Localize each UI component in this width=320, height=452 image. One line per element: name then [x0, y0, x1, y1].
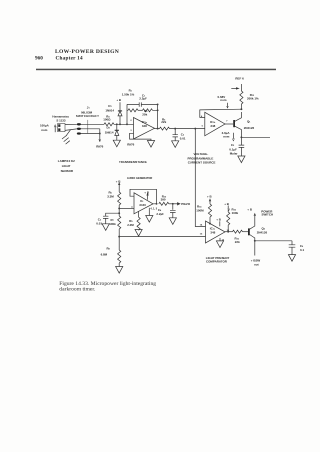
svg-text:390: 390 — [161, 198, 166, 202]
svg-text:PIEZO: PIEZO — [181, 202, 191, 206]
svg-text:3440: 3440 — [139, 203, 146, 207]
svg-text:100M: 100M — [196, 209, 204, 213]
svg-text:0.01: 0.01 — [96, 222, 102, 226]
svg-text:1.50k 1%: 1.50k 1% — [122, 93, 135, 97]
svg-text:348: 348 — [210, 230, 215, 234]
svg-text:2.2M: 2.2M — [127, 223, 134, 227]
svg-text:darkroom timer.: darkroom timer. — [59, 287, 96, 293]
svg-text:+ B: + B — [224, 202, 229, 206]
svg-text:R8: R8 — [107, 247, 111, 251]
svg-text:REF 6: REF 6 — [235, 77, 244, 81]
svg-text:2.2µF: 2.2µF — [156, 212, 164, 216]
svg-text:22k: 22k — [235, 240, 240, 244]
svg-text:Chapter 14: Chapter 14 — [56, 56, 83, 62]
svg-text:7: 7 — [226, 120, 228, 122]
svg-text:100µA: 100µA — [40, 123, 50, 127]
svg-text:R976: R976 — [96, 145, 103, 149]
svg-text:2N4126: 2N4126 — [244, 126, 255, 130]
svg-text:AUDIO GENERATOR: AUDIO GENERATOR — [127, 176, 153, 180]
svg-text:LOW-POWER DESIGN: LOW-POWER DESIGN — [55, 49, 119, 55]
svg-text:4, 1, 5: 4, 1, 5 — [150, 208, 157, 211]
svg-text:+ B: + B — [116, 98, 121, 102]
svg-text:13: 13 — [222, 239, 225, 241]
svg-text:TRANSRESISTANCE: TRANSRESISTANCE — [119, 160, 147, 164]
svg-text:20k: 20k — [142, 113, 147, 117]
svg-text:960: 960 — [35, 56, 43, 62]
svg-text:100k: 100k — [232, 211, 239, 215]
svg-text:Mylar: Mylar — [230, 151, 239, 155]
svg-text:0.01: 0.01 — [180, 136, 186, 140]
svg-text:nom: nom — [41, 128, 48, 132]
svg-text:2N4126: 2N4126 — [257, 231, 268, 235]
svg-text:SWITCHCRAFT: SWITCHCRAFT — [76, 114, 99, 118]
svg-text:15: 15 — [200, 234, 203, 236]
svg-text:5: 5 — [202, 125, 204, 127]
svg-text:+ B: + B — [207, 195, 212, 199]
svg-text:out: out — [254, 263, 259, 267]
svg-text:J1: J1 — [87, 106, 91, 110]
svg-text:+ B: + B — [144, 190, 149, 194]
svg-text:CURRENT SOURCE: CURRENT SOURCE — [188, 160, 216, 164]
svg-text:SENSOR: SENSOR — [61, 169, 74, 173]
svg-text:14: 14 — [200, 223, 203, 226]
svg-text:6.8M: 6.8M — [101, 252, 108, 256]
svg-text:348: 348 — [142, 124, 147, 128]
svg-text:3: 3 — [130, 130, 132, 132]
svg-text:D2: D2 — [107, 126, 111, 130]
svg-text:0.1: 0.1 — [300, 248, 304, 252]
svg-text:COMPARATOR: COMPARATOR — [206, 260, 228, 264]
svg-text:1N914: 1N914 — [105, 108, 114, 112]
svg-text:LAMP/10 K2: LAMP/10 K2 — [58, 159, 75, 163]
svg-text:+ B: + B — [247, 207, 252, 211]
svg-text:+ B: + B — [216, 218, 221, 222]
svg-text:nom: nom — [223, 134, 230, 138]
svg-text:Q1: Q1 — [247, 119, 251, 123]
svg-text:+ B: + B — [116, 180, 121, 184]
svg-text:200k 1%: 200k 1% — [247, 97, 259, 101]
svg-text:3.3M: 3.3M — [107, 194, 114, 198]
svg-text:348: 348 — [210, 124, 215, 128]
svg-text:100Ω: 100Ω — [103, 118, 111, 122]
svg-text:S 1133: S 1133 — [56, 118, 66, 122]
svg-text:nom: nom — [220, 98, 227, 102]
svg-text:SWITCH: SWITCH — [262, 213, 274, 217]
svg-text:2.2µF: 2.2µF — [139, 97, 147, 101]
svg-text:100k: 100k — [109, 222, 116, 226]
svg-text:2: 2 — [130, 120, 132, 122]
svg-text:LIGHT: LIGHT — [62, 164, 71, 168]
svg-text:R976: R976 — [127, 142, 134, 146]
svg-text:22k: 22k — [161, 120, 166, 124]
svg-text:1N914: 1N914 — [105, 130, 114, 134]
